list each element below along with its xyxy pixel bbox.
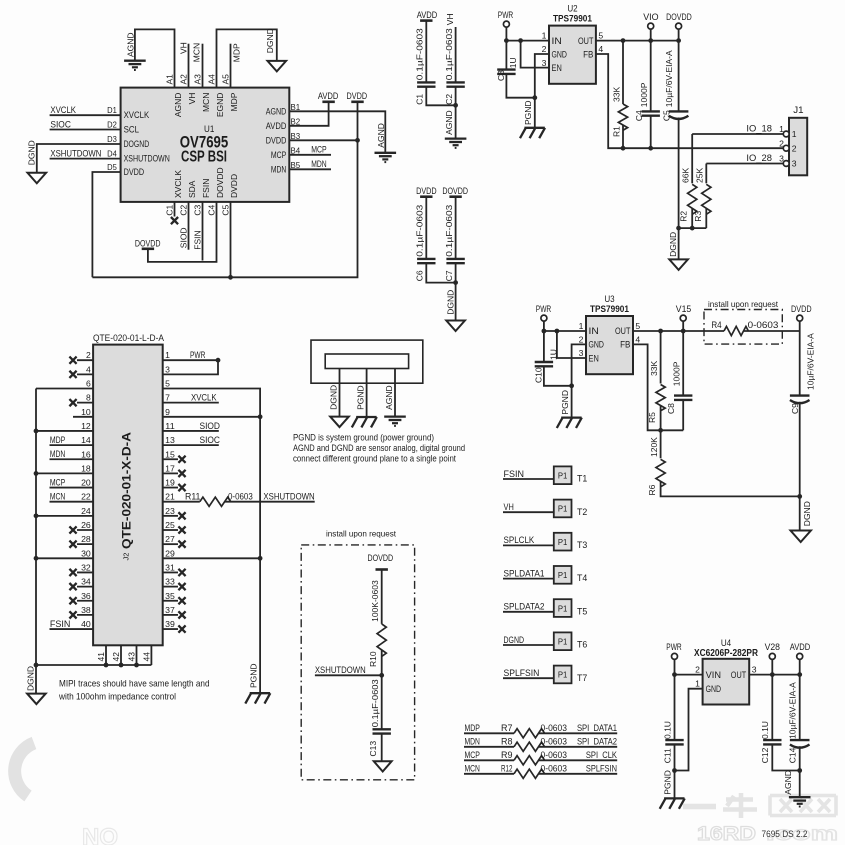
svg-text:A4: A4 xyxy=(207,74,217,85)
svg-text:R9: R9 xyxy=(501,750,513,760)
svg-text:3: 3 xyxy=(165,364,170,374)
svg-text:4: 4 xyxy=(635,335,640,345)
svg-text:XVCLK: XVCLK xyxy=(191,392,217,402)
svg-text:12: 12 xyxy=(81,421,91,431)
svg-text:C13: C13 xyxy=(368,741,378,757)
svg-text:C7: C7 xyxy=(444,270,454,281)
svg-text:16RD: 16RD xyxy=(697,823,756,845)
svg-text:XVCLK: XVCLK xyxy=(50,105,76,115)
svg-text:29: 29 xyxy=(165,548,175,558)
svg-text:VH: VH xyxy=(504,502,514,512)
svg-text:5: 5 xyxy=(598,31,603,41)
svg-text:AGND: AGND xyxy=(173,93,183,118)
svg-text:D4: D4 xyxy=(107,149,117,159)
svg-text:U2: U2 xyxy=(567,4,577,14)
svg-text:DVDD: DVDD xyxy=(347,91,368,101)
svg-text:D2: D2 xyxy=(107,120,117,130)
svg-text:SPLFSIN: SPLFSIN xyxy=(586,764,617,774)
svg-text:PGND: PGND xyxy=(355,385,365,410)
svg-text:C5: C5 xyxy=(221,204,231,215)
svg-text:PGND: PGND xyxy=(662,770,672,795)
svg-text:19: 19 xyxy=(165,478,175,488)
svg-text:C1: C1 xyxy=(415,94,425,105)
svg-text:DGND: DGND xyxy=(504,635,525,645)
svg-text:P1: P1 xyxy=(558,670,568,680)
svg-text:5: 5 xyxy=(165,379,170,389)
svg-text:2: 2 xyxy=(579,335,584,345)
svg-text:IN: IN xyxy=(589,326,599,336)
svg-text:DOVDD: DOVDD xyxy=(442,186,468,196)
svg-text:P1: P1 xyxy=(558,471,568,481)
svg-text:EN: EN xyxy=(552,63,562,73)
svg-text:DGND: DGND xyxy=(265,28,275,53)
svg-text:XSHUTDOWN: XSHUTDOWN xyxy=(50,148,101,158)
svg-text:C2: C2 xyxy=(179,204,189,215)
svg-text:33K: 33K xyxy=(611,87,621,102)
svg-text:PGND is system ground (power g: PGND is system ground (power ground) xyxy=(293,432,434,442)
svg-text:C12: C12 xyxy=(760,747,770,763)
svg-text:DVDD: DVDD xyxy=(266,135,287,145)
svg-text:31: 31 xyxy=(165,562,175,572)
svg-text:FB: FB xyxy=(620,340,630,350)
svg-text:J1: J1 xyxy=(793,105,803,115)
svg-text:MCP: MCP xyxy=(311,145,326,155)
svg-text:DVDD: DVDD xyxy=(416,186,437,196)
svg-text:1U: 1U xyxy=(508,57,518,68)
svg-text:10µF/6V-EIA-A: 10µF/6V-EIA-A xyxy=(664,50,674,107)
svg-text:0-0603: 0-0603 xyxy=(541,750,568,760)
svg-text:A5: A5 xyxy=(221,74,231,85)
svg-text:27: 27 xyxy=(165,534,175,544)
svg-text:MDN: MDN xyxy=(465,737,480,747)
svg-text:39: 39 xyxy=(165,619,175,629)
svg-text:0.1U: 0.1U xyxy=(662,721,672,739)
svg-text:QTE-020-01-L-D-A: QTE-020-01-L-D-A xyxy=(93,333,164,343)
svg-text:2: 2 xyxy=(542,44,547,54)
svg-text:install upon request: install upon request xyxy=(326,530,397,539)
svg-text:7: 7 xyxy=(165,393,170,403)
svg-text:DVDD: DVDD xyxy=(229,174,239,198)
svg-text:T7: T7 xyxy=(577,673,587,683)
svg-text:0.1µF-0603: 0.1µF-0603 xyxy=(444,28,454,80)
svg-text:44: 44 xyxy=(141,652,151,662)
svg-text:11: 11 xyxy=(165,421,175,431)
svg-text:MDN: MDN xyxy=(50,449,65,459)
svg-text:2: 2 xyxy=(792,143,797,153)
svg-text:EN: EN xyxy=(589,353,599,363)
svg-text:TPS79901: TPS79901 xyxy=(590,304,630,315)
svg-text:TPS79901: TPS79901 xyxy=(553,14,593,25)
svg-text:VH: VH xyxy=(445,13,455,25)
svg-text:T6: T6 xyxy=(577,640,587,650)
svg-text:SIOC: SIOC xyxy=(200,435,221,445)
svg-text:C2: C2 xyxy=(444,94,454,105)
svg-text:DGND: DGND xyxy=(328,385,338,410)
svg-text:21: 21 xyxy=(165,492,175,502)
svg-text:9: 9 xyxy=(165,407,170,417)
svg-text:DGND: DGND xyxy=(802,501,812,526)
svg-text:XSHUTDOWN: XSHUTDOWN xyxy=(315,665,366,675)
svg-text:MCN: MCN xyxy=(201,93,211,112)
svg-text:IN: IN xyxy=(552,36,562,46)
svg-text:C14: C14 xyxy=(788,747,798,763)
svg-text:C8: C8 xyxy=(666,403,676,414)
svg-text:C6: C6 xyxy=(415,270,425,281)
svg-text:16: 16 xyxy=(81,449,91,459)
svg-text:SPI_DATA2: SPI_DATA2 xyxy=(577,737,617,747)
svg-text:J2: J2 xyxy=(122,553,131,561)
svg-text:PWR: PWR xyxy=(498,10,514,20)
svg-text:AGND and DGND are sensor analo: AGND and DGND are sensor analog, digital… xyxy=(293,443,465,453)
svg-text:AVDD: AVDD xyxy=(266,121,287,131)
svg-text:A2: A2 xyxy=(179,74,189,85)
svg-text:MCP: MCP xyxy=(50,477,65,487)
svg-text:CSP BSI: CSP BSI xyxy=(181,149,227,166)
svg-text:2: 2 xyxy=(86,350,91,360)
svg-text:C4: C4 xyxy=(207,204,217,215)
svg-text:DVDD: DVDD xyxy=(124,167,145,177)
svg-text:24: 24 xyxy=(81,506,91,516)
svg-text:install upon request: install upon request xyxy=(708,300,779,309)
svg-text:P1: P1 xyxy=(558,637,568,647)
svg-text:AGND: AGND xyxy=(376,123,386,148)
svg-text:C1: C1 xyxy=(165,204,175,215)
svg-text:V15: V15 xyxy=(676,304,691,314)
svg-text:6: 6 xyxy=(86,379,91,389)
svg-text:SPLDATA1: SPLDATA1 xyxy=(504,568,545,578)
svg-text:14: 14 xyxy=(81,435,91,445)
svg-text:with 100ohm impedance control: with 100ohm impedance control xyxy=(58,692,176,702)
svg-text:AGND: AGND xyxy=(126,32,136,57)
svg-text:SPLCLK: SPLCLK xyxy=(504,535,535,545)
svg-text:XSHUTDOWN: XSHUTDOWN xyxy=(263,492,314,502)
svg-text:SCL: SCL xyxy=(124,125,139,135)
svg-text:C3: C3 xyxy=(496,70,506,81)
svg-text:D1: D1 xyxy=(107,105,117,115)
svg-text:VIO: VIO xyxy=(643,12,658,22)
svg-text:0-0603: 0-0603 xyxy=(228,492,253,502)
svg-text:FSIN: FSIN xyxy=(193,230,203,249)
svg-text:MDP: MDP xyxy=(465,723,480,733)
svg-text:7695 DS 2.2: 7695 DS 2.2 xyxy=(762,829,808,839)
svg-text:SPI_DATA1: SPI_DATA1 xyxy=(577,723,617,733)
svg-text:SPLFSIN: SPLFSIN xyxy=(504,668,540,678)
svg-text:0.1U: 0.1U xyxy=(760,721,770,739)
svg-text:T5: T5 xyxy=(577,606,587,616)
svg-text:MCP: MCP xyxy=(271,150,286,160)
svg-text:R8: R8 xyxy=(501,737,513,747)
svg-text:MCN: MCN xyxy=(50,492,65,502)
svg-text:GND: GND xyxy=(552,49,568,59)
svg-text:DOVDD: DOVDD xyxy=(215,167,225,198)
svg-text:MCN: MCN xyxy=(192,43,202,62)
svg-text:0-0603: 0-0603 xyxy=(541,737,568,747)
svg-text:3: 3 xyxy=(752,664,757,674)
svg-text:0.1µF-0603: 0.1µF-0603 xyxy=(415,28,425,80)
svg-text:U3: U3 xyxy=(604,294,614,304)
svg-text:R3: R3 xyxy=(693,211,703,222)
svg-text:DVDD: DVDD xyxy=(791,304,812,314)
svg-text:30: 30 xyxy=(81,548,91,558)
svg-text:33K: 33K xyxy=(649,361,659,376)
svg-text:C4: C4 xyxy=(634,110,644,121)
svg-text:A1: A1 xyxy=(165,74,175,85)
svg-text:P1: P1 xyxy=(558,504,568,514)
svg-text:MIPI traces should have same: MIPI traces should have same length and xyxy=(59,679,210,689)
svg-text:0-0603: 0-0603 xyxy=(541,764,568,774)
svg-text:MCP: MCP xyxy=(465,750,480,760)
svg-text:DGND: DGND xyxy=(445,290,455,315)
svg-text:13: 13 xyxy=(165,435,175,445)
svg-text:C11: C11 xyxy=(662,748,672,763)
svg-text:R11: R11 xyxy=(185,492,200,502)
svg-text:100K-0603: 100K-0603 xyxy=(370,580,380,622)
svg-text:V28: V28 xyxy=(765,642,780,652)
svg-text:SIOD: SIOD xyxy=(179,227,189,248)
svg-text:D5: D5 xyxy=(107,162,117,172)
svg-text:20: 20 xyxy=(81,478,91,488)
svg-text:37: 37 xyxy=(165,605,175,615)
svg-text:VH: VH xyxy=(178,42,188,54)
svg-text:4: 4 xyxy=(86,364,91,374)
svg-text:AGND: AGND xyxy=(384,385,394,410)
svg-text:FSIN: FSIN xyxy=(201,179,211,198)
svg-text:C10: C10 xyxy=(534,367,544,383)
svg-text:34: 34 xyxy=(81,577,91,587)
svg-text:MDN: MDN xyxy=(271,164,286,174)
svg-text:23: 23 xyxy=(165,506,175,516)
svg-text:42: 42 xyxy=(111,652,121,662)
svg-text:22: 22 xyxy=(81,492,91,502)
svg-text:AGND: AGND xyxy=(783,770,793,795)
svg-text:P1: P1 xyxy=(558,537,568,547)
svg-text:XVCLK: XVCLK xyxy=(173,170,183,198)
svg-text:DGND: DGND xyxy=(668,232,678,257)
svg-text:FSIN: FSIN xyxy=(50,619,71,629)
svg-text:C3: C3 xyxy=(193,204,203,215)
svg-text:1: 1 xyxy=(695,679,700,689)
svg-text:EGND: EGND xyxy=(215,93,225,118)
svg-text:MDP: MDP xyxy=(229,92,239,111)
svg-text:38: 38 xyxy=(81,605,91,615)
svg-text:0.1µF-0603: 0.1µF-0603 xyxy=(415,204,425,256)
svg-text:MDP: MDP xyxy=(232,43,242,62)
svg-text:0-0603: 0-0603 xyxy=(541,723,568,733)
svg-text:QTE-020-01-X-D-A: QTE-020-01-X-D-A xyxy=(120,432,134,549)
svg-text:40: 40 xyxy=(81,619,91,629)
svg-text:DOVDD: DOVDD xyxy=(666,12,692,22)
svg-text:D3: D3 xyxy=(107,134,117,144)
svg-text:OUT: OUT xyxy=(578,36,594,46)
svg-text:AGND: AGND xyxy=(266,106,287,116)
svg-text:4: 4 xyxy=(598,44,603,54)
svg-text:R12: R12 xyxy=(501,764,513,774)
svg-text:PGND: PGND xyxy=(560,390,570,415)
svg-text:SPLDATA2: SPLDATA2 xyxy=(504,602,545,612)
svg-text:DGND: DGND xyxy=(26,666,36,691)
svg-text:PGND: PGND xyxy=(249,663,259,688)
svg-text:SPI_CLK: SPI_CLK xyxy=(586,750,617,760)
svg-text:OUT: OUT xyxy=(731,670,747,680)
svg-text:MDN: MDN xyxy=(311,159,326,169)
svg-text:XC6206P-282PR: XC6206P-282PR xyxy=(694,648,759,659)
svg-text:1: 1 xyxy=(542,31,547,41)
svg-text:R10: R10 xyxy=(368,651,378,667)
svg-text:FSIN: FSIN xyxy=(504,469,525,479)
svg-text:AVDD: AVDD xyxy=(318,91,339,101)
svg-text:3: 3 xyxy=(542,58,547,68)
svg-text:PGND: PGND xyxy=(523,100,533,125)
svg-text:1: 1 xyxy=(792,129,797,139)
svg-text:DOVDD: DOVDD xyxy=(135,238,161,248)
svg-text:66K: 66K xyxy=(681,168,691,183)
svg-text:R2: R2 xyxy=(679,211,689,222)
svg-text:18: 18 xyxy=(81,463,91,473)
svg-text:A3: A3 xyxy=(193,74,203,85)
svg-text:10µF/6V-EIA-A: 10µF/6V-EIA-A xyxy=(788,682,798,739)
svg-text:C9: C9 xyxy=(790,403,800,414)
svg-text:connect different ground plane: connect different ground plane to a sing… xyxy=(293,453,456,463)
svg-text:PWR: PWR xyxy=(190,350,206,360)
svg-text:1: 1 xyxy=(579,321,584,331)
svg-text:R7: R7 xyxy=(501,723,513,733)
svg-text:25: 25 xyxy=(165,520,175,530)
svg-text:15: 15 xyxy=(165,449,175,459)
svg-text:R4: R4 xyxy=(711,320,721,330)
svg-text:SIOC: SIOC xyxy=(50,119,71,129)
svg-text:DOGND: DOGND xyxy=(124,139,150,149)
svg-text:5: 5 xyxy=(635,321,640,331)
svg-text:0.1µF-0603: 0.1µF-0603 xyxy=(444,204,454,256)
svg-text:35: 35 xyxy=(165,591,175,601)
svg-text:R6: R6 xyxy=(647,484,657,495)
svg-text:MDP: MDP xyxy=(50,435,65,445)
svg-text:26: 26 xyxy=(81,520,91,530)
svg-text:17: 17 xyxy=(165,463,175,473)
svg-text:U1: U1 xyxy=(204,124,214,134)
svg-text:10µF/6V-EIA-A: 10µF/6V-EIA-A xyxy=(805,333,815,390)
svg-text:32: 32 xyxy=(81,562,91,572)
svg-text:VH: VH xyxy=(187,93,197,105)
svg-text:FB: FB xyxy=(583,49,593,59)
svg-text:PWR: PWR xyxy=(536,304,552,314)
svg-text:DOVDD: DOVDD xyxy=(368,553,394,563)
svg-text:2: 2 xyxy=(695,664,700,674)
svg-text:C5: C5 xyxy=(662,110,672,121)
svg-text:XSHUTDOWN: XSHUTDOWN xyxy=(124,154,170,164)
svg-text:10: 10 xyxy=(81,407,91,417)
svg-text:P1: P1 xyxy=(558,603,568,613)
svg-text:120K: 120K xyxy=(649,437,659,457)
svg-text:33: 33 xyxy=(165,577,175,587)
svg-text:AGND: AGND xyxy=(444,110,454,135)
svg-text:IO_28: IO_28 xyxy=(746,153,772,163)
svg-text:T1: T1 xyxy=(577,474,587,484)
svg-text:VIN: VIN xyxy=(706,670,721,680)
svg-text:28: 28 xyxy=(81,534,91,544)
svg-text:NO: NO xyxy=(82,824,118,845)
svg-text:GND: GND xyxy=(589,340,605,350)
svg-text:0.1µF-0603: 0.1µF-0603 xyxy=(370,679,380,727)
svg-text:1: 1 xyxy=(165,350,170,360)
svg-text:8: 8 xyxy=(86,393,91,403)
svg-text:SIOD: SIOD xyxy=(200,421,221,431)
svg-text:1000P: 1000P xyxy=(639,82,649,107)
svg-text:PWR: PWR xyxy=(666,642,682,652)
svg-text:T3: T3 xyxy=(577,540,587,550)
svg-text:XVCLK: XVCLK xyxy=(124,110,150,120)
svg-text:0-0603: 0-0603 xyxy=(748,320,779,330)
svg-text:IO_18: IO_18 xyxy=(746,123,772,133)
svg-text:36: 36 xyxy=(81,591,91,601)
svg-text:3: 3 xyxy=(579,348,584,358)
svg-text:43: 43 xyxy=(127,652,137,662)
svg-text:AVDD: AVDD xyxy=(417,10,438,20)
svg-text:SDA: SDA xyxy=(187,180,197,198)
svg-text:MCN: MCN xyxy=(465,764,480,774)
svg-text:1U: 1U xyxy=(549,349,559,360)
svg-text:OUT: OUT xyxy=(615,326,631,336)
svg-text:1000P: 1000P xyxy=(672,361,682,386)
svg-text:T4: T4 xyxy=(577,573,587,583)
svg-text:AVDD: AVDD xyxy=(790,642,811,652)
svg-text:R1: R1 xyxy=(611,126,621,137)
svg-text:GND: GND xyxy=(706,684,722,694)
svg-text:DGND: DGND xyxy=(27,140,37,165)
svg-text:3: 3 xyxy=(792,159,797,169)
svg-text:25K: 25K xyxy=(695,168,705,183)
svg-text:U4: U4 xyxy=(721,638,731,648)
svg-text:41: 41 xyxy=(96,652,106,662)
svg-text:P1: P1 xyxy=(558,570,568,580)
svg-text:T2: T2 xyxy=(577,507,587,517)
